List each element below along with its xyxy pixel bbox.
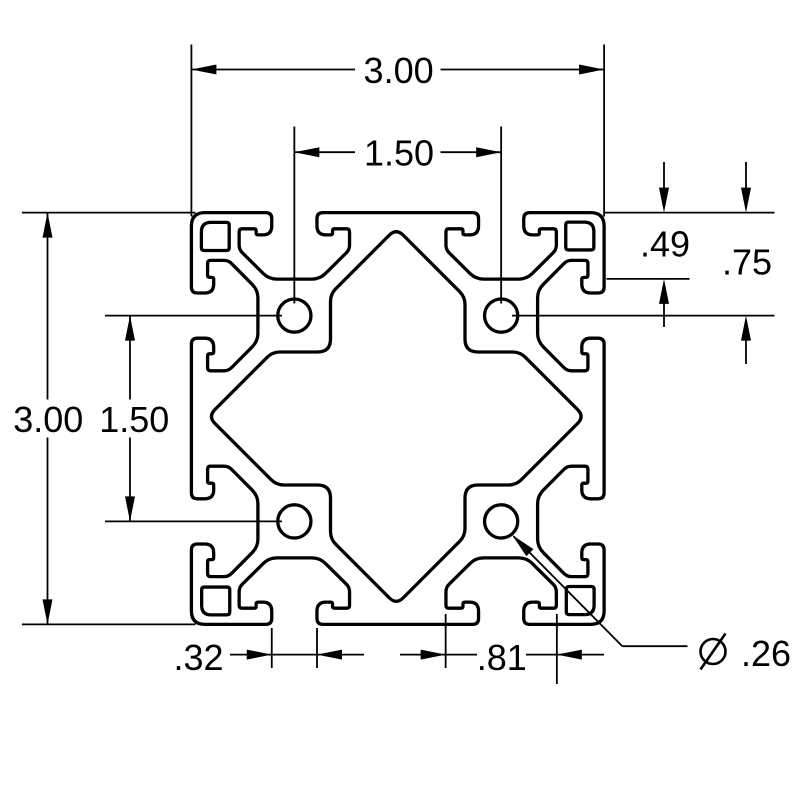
leader dia .26 (514, 536, 623, 646)
top-right corner square hole (566, 222, 594, 250)
aluminum extrusion outer profile outline (191, 213, 604, 625)
dim 3.00 top: extension lines (190, 45, 192, 217)
dim .49: arrows (663, 162, 665, 193)
svg-text:1.50: 1.50 (364, 133, 434, 174)
dim 1.50 top: dimension line + arrows (294, 151, 355, 153)
dim 3.00 left: extension lines (22, 212, 196, 214)
dim .32 bottom: extension lines (271, 628, 273, 668)
dim 1.50 top: extension/center lines into bores (293, 127, 295, 304)
svg-text:.26: .26 (741, 633, 791, 674)
dim 3.00 left: dimension line + arrows (47, 213, 49, 400)
dim 3.00 top: dimension line + arrows (191, 69, 355, 71)
dim .81 bottom: extension lines (445, 614, 447, 668)
bottom-left corner square hole (202, 587, 230, 615)
svg-text:3.00: 3.00 (13, 399, 83, 440)
dia symbol (701, 639, 726, 664)
svg-text:1.50: 1.50 (99, 399, 169, 440)
top-left corner square hole (201, 222, 229, 250)
svg-text:.81: .81 (477, 637, 527, 678)
svg-text:.75: .75 (722, 242, 772, 283)
dim .75: arrows (745, 162, 747, 193)
dim .81 bottom: line + arrows (400, 654, 446, 656)
svg-text:.49: .49 (640, 224, 690, 265)
corner bore holes (dia .26) (278, 299, 311, 332)
central cavity (211, 232, 581, 602)
dim .32 bottom: line + arrows (230, 654, 272, 656)
bottom-right corner square hole (566, 587, 594, 615)
dim 1.50 left: center lines into bores (105, 315, 282, 317)
dim 1.50 left: dimension line + arrows (129, 316, 131, 400)
svg-text:.32: .32 (173, 637, 223, 678)
svg-text:3.00: 3.00 (364, 50, 434, 91)
dim .49/.75 right: extension lines (605, 212, 775, 214)
